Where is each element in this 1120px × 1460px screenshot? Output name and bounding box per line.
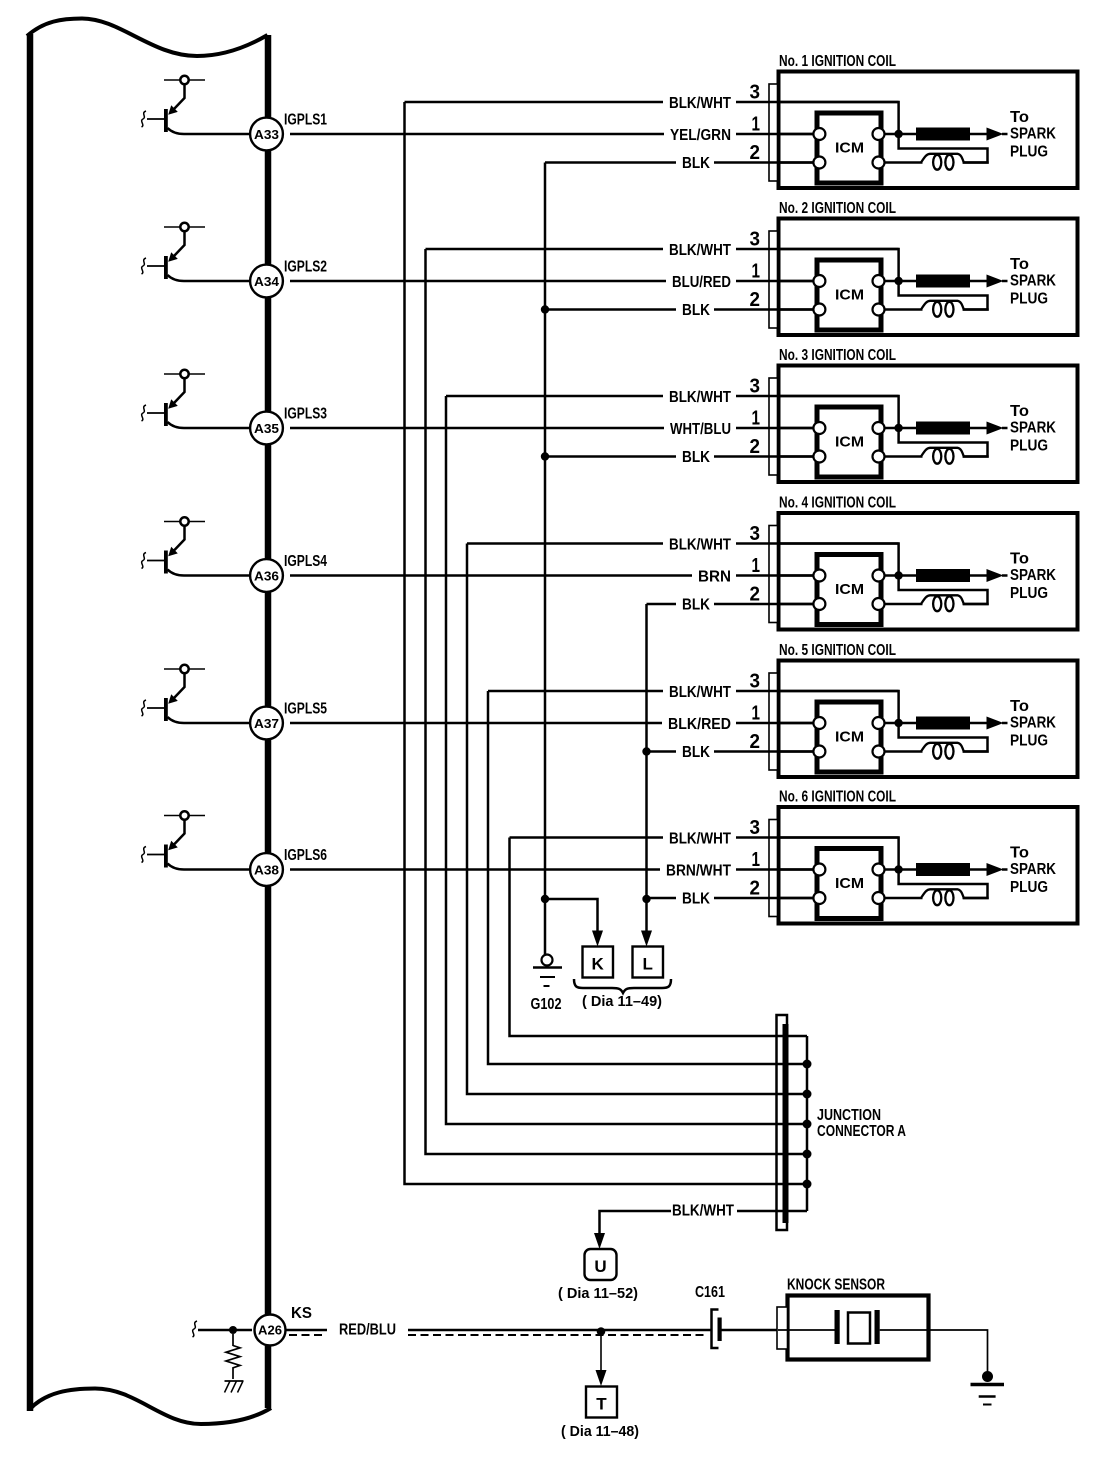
junction connector A internal bus line — [806, 1036, 809, 1211]
svg-text:2: 2 — [750, 435, 761, 458]
wire ICM to primary winding (coil 5) — [885, 750, 923, 753]
BLK ground bus for coils 4-6 (to L) — [645, 604, 648, 931]
wire pin 2 inside coil 2 — [769, 308, 819, 311]
svg-text:No. 2 IGNITION COIL: No. 2 IGNITION COIL — [779, 200, 896, 217]
wire coil 5 pin 3 BLK/WHT + bus down to junction connector — [488, 690, 663, 693]
svg-text:BLK: BLK — [682, 744, 711, 761]
wire pin 3 inside coil 5 down to primary node — [769, 691, 899, 723]
ground G102 terminal circle — [542, 955, 553, 966]
svg-text:2: 2 — [750, 583, 761, 606]
svg-text:( Dia 11–52): ( Dia 11–52) — [558, 1285, 638, 1302]
svg-text:A34: A34 — [254, 274, 280, 289]
wire A38 to ignition coil 6 pin 1 (BRN/WHT) — [290, 868, 660, 871]
primary winding loops (coil 6) — [921, 889, 964, 898]
svg-text:BLU/RED: BLU/RED — [672, 274, 731, 291]
transistor Q6 base bar — [164, 845, 168, 868]
transistor Q1 base bar — [164, 109, 168, 132]
brace under K and L — [574, 979, 671, 993]
wire pin 1 inside coil 4 — [769, 574, 819, 577]
coil 6 connector bracket — [769, 820, 778, 917]
terminal box L — [633, 947, 664, 978]
wire coil 2 pin 2 BLK to ground bus — [545, 308, 676, 311]
ignition coil 1 box — [779, 72, 1078, 189]
svg-text:G102: G102 — [531, 996, 562, 1013]
ICM pin circles (coil 4) — [813, 570, 825, 582]
connector pin circle A34 — [250, 265, 283, 298]
svg-text:YEL/GRN: YEL/GRN — [670, 127, 731, 144]
terminal box U — [585, 1249, 617, 1280]
transistor Q6 collector terminal circle — [180, 811, 188, 819]
transistor Q1 collector terminal circle — [180, 76, 188, 84]
wire Q4 base lead — [147, 560, 164, 562]
svg-text:3: 3 — [750, 816, 761, 839]
primary winding loops (coil 5) — [921, 743, 964, 752]
svg-text:1: 1 — [752, 407, 761, 430]
transistor Q5 collector terminal circle — [180, 665, 188, 673]
svg-text:PLUG: PLUG — [1010, 733, 1048, 750]
svg-text:CONNECTOR A: CONNECTOR A — [817, 1123, 906, 1140]
transistor Q4 collector lead with arrow — [174, 526, 185, 551]
igniter ICM box (coil 6) — [817, 849, 881, 919]
wire Q1 emitter to connector A33 — [168, 128, 253, 134]
wire ICM to primary winding (coil 6) — [885, 897, 923, 900]
node shield drain junction — [597, 1327, 606, 1336]
wire Q5 emitter to connector A37 — [168, 717, 253, 723]
svg-text:BLK/WHT: BLK/WHT — [669, 537, 731, 554]
svg-text:BRN/WHT: BRN/WHT — [666, 863, 731, 880]
wire pin 1 inside coil 3 — [769, 427, 819, 430]
wire pin 1 inside coil 5 — [769, 722, 819, 725]
resistor R (KS pulldown) — [232, 1334, 234, 1346]
wire pin 3 inside coil 4 down to primary node — [769, 544, 899, 576]
svg-text:IGPLS4: IGPLS4 — [284, 553, 327, 570]
svg-text:PLUG: PLUG — [1010, 879, 1048, 896]
igniter ICM box (coil 5) — [817, 702, 881, 772]
svg-text:A35: A35 — [254, 421, 279, 436]
wire RED/BLU knock sensor signal — [286, 1329, 327, 1332]
svg-text:SPARK: SPARK — [1010, 420, 1057, 437]
ICM pin circles (coil 5) — [813, 717, 825, 729]
wire A36 to ignition coil 4 pin 1 (BRN) — [290, 574, 692, 577]
noise suppressor (coil 2) — [916, 275, 970, 288]
node coil 3 primary junction — [885, 427, 917, 430]
svg-text:T: T — [596, 1395, 607, 1414]
ignition coil 5 box — [779, 661, 1078, 778]
wire coil 3 pin 2 BLK to ground bus — [545, 455, 676, 458]
primary winding loops (coil 3) — [921, 448, 964, 457]
wire Q4 emitter to connector A36 — [168, 570, 253, 576]
svg-text:RED/BLU: RED/BLU — [339, 1322, 396, 1339]
transistor Q2 top rail — [164, 226, 205, 228]
igniter ICM box (coil 1) — [817, 113, 881, 183]
wire coil 2 pin 3 BLK/WHT + bus down to junction connector — [426, 248, 664, 251]
transistor Q4 collector terminal circle — [180, 517, 188, 525]
node coil 6 primary junction — [885, 868, 917, 871]
primary winding loops (coil 4) — [921, 595, 964, 604]
svg-text:IGPLS1: IGPLS1 — [284, 112, 327, 129]
svg-text:BLK/WHT: BLK/WHT — [672, 1203, 734, 1220]
connector pin circle A26 — [255, 1315, 286, 1346]
wire suppressor to spark plug arrow (coil 1) — [970, 133, 988, 136]
connector pin circle A37 — [250, 707, 283, 740]
node junction connector pin 3 — [803, 1090, 812, 1099]
svg-text:A36: A36 — [254, 568, 279, 583]
wire C161 to knock sensor — [722, 1329, 779, 1332]
transistor Q3 collector terminal circle — [180, 370, 188, 378]
transistor Q3 top rail — [164, 373, 205, 375]
piezo element crystal — [848, 1313, 870, 1344]
svg-text:To: To — [1010, 403, 1029, 420]
transistor Q2 base bar — [164, 256, 168, 279]
wire suppressor to spark plug arrow (coil 5) — [970, 722, 988, 725]
svg-text:IGPLS6: IGPLS6 — [284, 847, 327, 864]
svg-text:BLK: BLK — [682, 891, 711, 908]
svg-text:IGPLS5: IGPLS5 — [284, 701, 327, 718]
svg-text:KNOCK SENSOR: KNOCK SENSOR — [787, 1277, 885, 1294]
svg-text:BLK/WHT: BLK/WHT — [669, 95, 731, 112]
svg-text:No. 1 IGNITION COIL: No. 1 IGNITION COIL — [779, 53, 896, 70]
svg-text:3: 3 — [750, 228, 761, 251]
connector pin circle A38 — [250, 853, 283, 886]
svg-text:2: 2 — [750, 730, 761, 753]
svg-text:2: 2 — [750, 877, 761, 900]
wire BLK bus to terminal K — [545, 899, 598, 931]
svg-text:SPARK: SPARK — [1010, 861, 1057, 878]
shield (dashed) around knock sensor wire — [289, 1334, 326, 1336]
ignition coil 2 box — [779, 219, 1078, 336]
wire Q6 emitter to connector A38 — [168, 864, 253, 870]
coil 1 connector bracket — [769, 84, 778, 181]
node BLK bus junction to L — [642, 895, 650, 903]
svg-text:2: 2 — [750, 288, 761, 311]
Q5 base lead break squiggle — [142, 700, 147, 716]
svg-text:3: 3 — [750, 670, 761, 693]
svg-text:BLK: BLK — [682, 449, 711, 466]
Q4 base lead break squiggle — [142, 553, 147, 569]
wire ICM to primary winding (coil 1) — [885, 161, 923, 164]
svg-text:PLUG: PLUG — [1010, 144, 1048, 161]
wire pin 3 inside coil 1 down to primary node — [769, 102, 899, 134]
igniter ICM box (coil 3) — [817, 407, 881, 477]
svg-text:3: 3 — [750, 375, 761, 398]
primary winding loops (coil 2) — [921, 301, 964, 310]
transistor Q4 top rail — [164, 521, 205, 523]
junction connector A outline — [777, 1015, 788, 1230]
svg-text:K: K — [592, 955, 605, 974]
wire Q3 base lead — [147, 412, 164, 414]
noise suppressor (coil 3) — [916, 422, 970, 435]
secondary winding circuit (coil 4) — [899, 580, 988, 605]
coil 3 connector bracket — [769, 378, 778, 475]
chassis ground under resistor — [225, 1380, 244, 1382]
svg-text:BRN: BRN — [698, 569, 731, 586]
svg-text:BLK/WHT: BLK/WHT — [669, 389, 731, 406]
svg-text:No. 5 IGNITION COIL: No. 5 IGNITION COIL — [779, 642, 896, 659]
transistor Q1 collector lead with arrow — [174, 84, 185, 109]
wire pin 1 inside coil 1 — [769, 133, 819, 136]
wire Q3 emitter to connector A35 — [168, 422, 253, 428]
wire pin 1 inside coil 6 — [769, 868, 819, 871]
wire pin 3 inside coil 6 down to primary node — [769, 838, 899, 870]
coil 4 connector bracket — [769, 526, 778, 623]
coil 2 connector bracket — [769, 231, 778, 328]
svg-text:IGPLS2: IGPLS2 — [284, 259, 327, 276]
terminal box T — [586, 1387, 617, 1418]
wire pin 2 inside coil 1 — [769, 161, 819, 164]
wire pin 2 inside coil 3 — [769, 455, 819, 458]
wire pin 1 inside coil 2 — [769, 280, 819, 283]
wire into piezo element — [778, 1329, 836, 1331]
ECM right edge / connector bus bar — [265, 35, 272, 1408]
svg-text:1: 1 — [752, 113, 761, 136]
ignition coil 4 box — [779, 513, 1078, 630]
wire ICM to primary winding (coil 3) — [885, 455, 923, 458]
wire pin 2 inside coil 4 — [769, 603, 819, 606]
wire coil 4 pin 2 BLK to ground bus — [647, 603, 677, 606]
svg-text:A26: A26 — [258, 1323, 282, 1338]
svg-text:BLK/RED: BLK/RED — [668, 716, 731, 733]
node coil 2 primary junction — [885, 280, 917, 283]
svg-text:C161: C161 — [695, 1284, 725, 1301]
knock sensor box — [788, 1296, 929, 1360]
wire shield drain to T — [600, 1335, 602, 1370]
svg-text:PLUG: PLUG — [1010, 585, 1048, 602]
wire A33 to ignition coil 1 pin 1 (YEL/GRN) — [290, 133, 664, 136]
svg-text:3: 3 — [750, 522, 761, 545]
svg-text:BLK/WHT: BLK/WHT — [669, 242, 731, 259]
wire Q2 emitter to connector A34 — [168, 275, 253, 281]
igniter ICM box (coil 2) — [817, 260, 881, 330]
transistor Q1 top rail — [164, 79, 205, 81]
svg-text:BLK/WHT: BLK/WHT — [669, 684, 731, 701]
ECM/PCM module torn boundary: left edge — [27, 34, 34, 1411]
wire suppressor to spark plug arrow (coil 3) — [970, 427, 988, 430]
svg-text:To: To — [1010, 551, 1029, 568]
connector pin circle A33 — [250, 118, 283, 151]
wire suppressor to spark plug arrow (coil 2) — [970, 280, 988, 283]
node BLK bus junction at coil 2 — [541, 305, 549, 313]
svg-text:ICM: ICM — [835, 140, 864, 157]
connector pin circle A35 — [250, 412, 283, 445]
noise suppressor (coil 4) — [916, 569, 970, 582]
wire Q6 base lead — [147, 854, 164, 856]
svg-text:BLK: BLK — [682, 302, 711, 319]
ground at knock sensor — [982, 1371, 993, 1382]
svg-text:SPARK: SPARK — [1010, 273, 1057, 290]
transistor Q3 collector lead with arrow — [174, 378, 185, 403]
transistor Q6 top rail — [164, 815, 205, 817]
ECM top edge (torn wavy) — [27, 19, 268, 57]
svg-text:ICM: ICM — [835, 729, 864, 746]
svg-text:A37: A37 — [254, 716, 279, 731]
coil 5 connector bracket — [769, 673, 778, 770]
svg-text:JUNCTION: JUNCTION — [817, 1107, 881, 1124]
node BLK bus junction at coil 5 — [642, 747, 650, 755]
svg-text:ICM: ICM — [835, 875, 864, 892]
wire coil 6 pin 3 BLK/WHT + bus down to junction connector — [510, 836, 664, 839]
svg-text:No. 6 IGNITION COIL: No. 6 IGNITION COIL — [779, 789, 896, 806]
wire KS stub into A26 — [198, 1329, 252, 1332]
secondary winding circuit (coil 5) — [899, 727, 988, 752]
transistor Q5 base bar — [164, 698, 168, 721]
svg-text:IGPLS3: IGPLS3 — [284, 406, 327, 423]
wire coil 3 pin 3 BLK/WHT + bus down to junction connector — [446, 395, 663, 398]
svg-text:SPARK: SPARK — [1010, 126, 1057, 143]
wire ICM to primary winding (coil 4) — [885, 603, 923, 606]
wire coil 1 pin 2 BLK to ground bus — [545, 161, 676, 164]
node BLK bus junction to K — [541, 895, 549, 903]
transistor Q5 top rail — [164, 668, 205, 670]
transistor Q2 collector terminal circle — [180, 223, 188, 231]
svg-text:No. 4 IGNITION COIL: No. 4 IGNITION COIL — [779, 495, 896, 512]
transistor Q6 collector lead with arrow — [174, 820, 185, 845]
piezo element left plate — [835, 1310, 840, 1344]
svg-text:PLUG: PLUG — [1010, 438, 1048, 455]
wire suppressor to spark plug arrow (coil 6) — [970, 868, 988, 871]
primary winding loops (coil 1) — [921, 154, 964, 163]
wire pin 2 inside coil 6 — [769, 897, 819, 900]
transistor Q3 base bar — [164, 403, 168, 426]
wire A35 to ignition coil 3 pin 1 (WHT/BLU) — [290, 427, 664, 430]
svg-text:ICM: ICM — [835, 434, 864, 451]
wire Q1 base lead — [147, 118, 164, 120]
node junction connector pin 4 — [803, 1120, 812, 1129]
node junction connector pin 5 — [803, 1150, 812, 1159]
wire A37 to ignition coil 5 pin 1 (BLK/RED) — [290, 722, 662, 725]
svg-text:PLUG: PLUG — [1010, 291, 1048, 308]
wire coil 1 pin 3 BLK/WHT + bus down to junction connector — [405, 101, 664, 104]
wire coil 6 pin 2 BLK to ground bus — [647, 897, 677, 900]
ICM pin circles (coil 1) — [813, 128, 825, 140]
svg-text:SPARK: SPARK — [1010, 715, 1057, 732]
wire BLK/WHT output of junction connector — [737, 1210, 807, 1213]
svg-text:( Dia 11–48): ( Dia 11–48) — [561, 1423, 639, 1440]
wire coil 5 pin 2 BLK to ground bus — [647, 750, 677, 753]
svg-text:1: 1 — [752, 554, 761, 577]
transistor Q2 collector lead with arrow — [174, 231, 185, 256]
ignition coil 3 box — [779, 366, 1078, 483]
svg-text:BLK/WHT: BLK/WHT — [669, 831, 731, 848]
node coil 1 primary junction — [885, 133, 917, 136]
wire ICM to primary winding (coil 2) — [885, 308, 923, 311]
svg-text:To: To — [1010, 109, 1029, 126]
KS base lead break squiggle — [193, 1321, 198, 1337]
svg-text:2: 2 — [750, 141, 761, 164]
ICM pin circles (coil 6) — [813, 864, 825, 876]
node BLK bus junction at coil 3 — [541, 452, 549, 460]
node junction connector pin 6 — [803, 1180, 812, 1189]
svg-text:A33: A33 — [254, 127, 279, 142]
wire coil 4 pin 3 BLK/WHT + bus down to junction connector — [467, 542, 663, 545]
svg-text:To: To — [1010, 845, 1029, 862]
secondary winding circuit (coil 6) — [899, 874, 988, 899]
svg-text:KS: KS — [291, 1305, 312, 1322]
Q6 base lead break squiggle — [142, 847, 147, 863]
ignition coil 6 box — [779, 807, 1078, 924]
wire Q2 base lead — [147, 265, 164, 267]
svg-text:1: 1 — [752, 702, 761, 725]
wire Q5 base lead — [147, 707, 164, 709]
wire pin 3 inside coil 3 down to primary node — [769, 396, 899, 428]
ECM bottom edge (torn wavy) — [30, 1389, 271, 1425]
transistor Q5 collector lead with arrow — [174, 673, 185, 698]
wire pin 3 inside coil 2 down to primary node — [769, 249, 899, 281]
svg-text:BLK: BLK — [682, 155, 711, 172]
wire pin 2 inside coil 5 — [769, 750, 819, 753]
svg-text:( Dia 11–49): ( Dia 11–49) — [582, 993, 662, 1010]
svg-text:L: L — [643, 955, 653, 974]
svg-text:To: To — [1010, 256, 1029, 273]
secondary winding circuit (coil 3) — [899, 432, 988, 457]
junction connector A contact bar — [783, 1024, 789, 1223]
ICM pin circles (coil 2) — [813, 275, 825, 287]
Q1 base lead break squiggle — [142, 111, 147, 127]
noise suppressor (coil 5) — [916, 717, 970, 730]
node KS pulldown junction — [229, 1326, 237, 1334]
noise suppressor (coil 1) — [916, 128, 970, 141]
svg-text:BLK: BLK — [682, 597, 711, 614]
ICM pin circles (coil 3) — [813, 422, 825, 434]
BLK ground bus for coils 1-3 (to G102 / K) — [544, 163, 547, 955]
connector pin circle A36 — [250, 559, 283, 592]
connector C161 — [712, 1310, 719, 1349]
svg-text:WHT/BLU: WHT/BLU — [670, 421, 731, 438]
svg-text:U: U — [594, 1257, 606, 1276]
Q2 base lead break squiggle — [142, 258, 147, 274]
svg-text:3: 3 — [750, 81, 761, 104]
svg-text:1: 1 — [752, 260, 761, 283]
secondary winding circuit (coil 1) — [899, 138, 988, 163]
svg-text:ICM: ICM — [835, 287, 864, 304]
knock sensor connector bracket — [777, 1307, 788, 1349]
svg-text:A38: A38 — [254, 862, 279, 877]
node coil 4 primary junction — [885, 574, 917, 577]
ground G102 symbol — [533, 966, 562, 969]
node junction connector pin 2 — [803, 1060, 812, 1069]
svg-text:ICM: ICM — [835, 581, 864, 598]
wire knock sensor to ground — [880, 1330, 988, 1372]
node coil 5 primary junction — [885, 722, 917, 725]
svg-text:1: 1 — [752, 848, 761, 871]
svg-text:To: To — [1010, 698, 1029, 715]
piezo element right plate — [875, 1310, 880, 1344]
noise suppressor (coil 6) — [916, 863, 970, 876]
Q3 base lead break squiggle — [142, 405, 147, 421]
terminal box K — [583, 947, 614, 978]
svg-text:No. 3 IGNITION COIL: No. 3 IGNITION COIL — [779, 347, 896, 364]
igniter ICM box (coil 4) — [817, 555, 881, 625]
wire A34 to ignition coil 2 pin 1 (BLU/RED) — [290, 280, 666, 283]
wire suppressor to spark plug arrow (coil 4) — [970, 574, 988, 577]
secondary winding circuit (coil 2) — [899, 285, 988, 310]
svg-text:SPARK: SPARK — [1010, 567, 1057, 584]
transistor Q4 base bar — [164, 551, 168, 574]
